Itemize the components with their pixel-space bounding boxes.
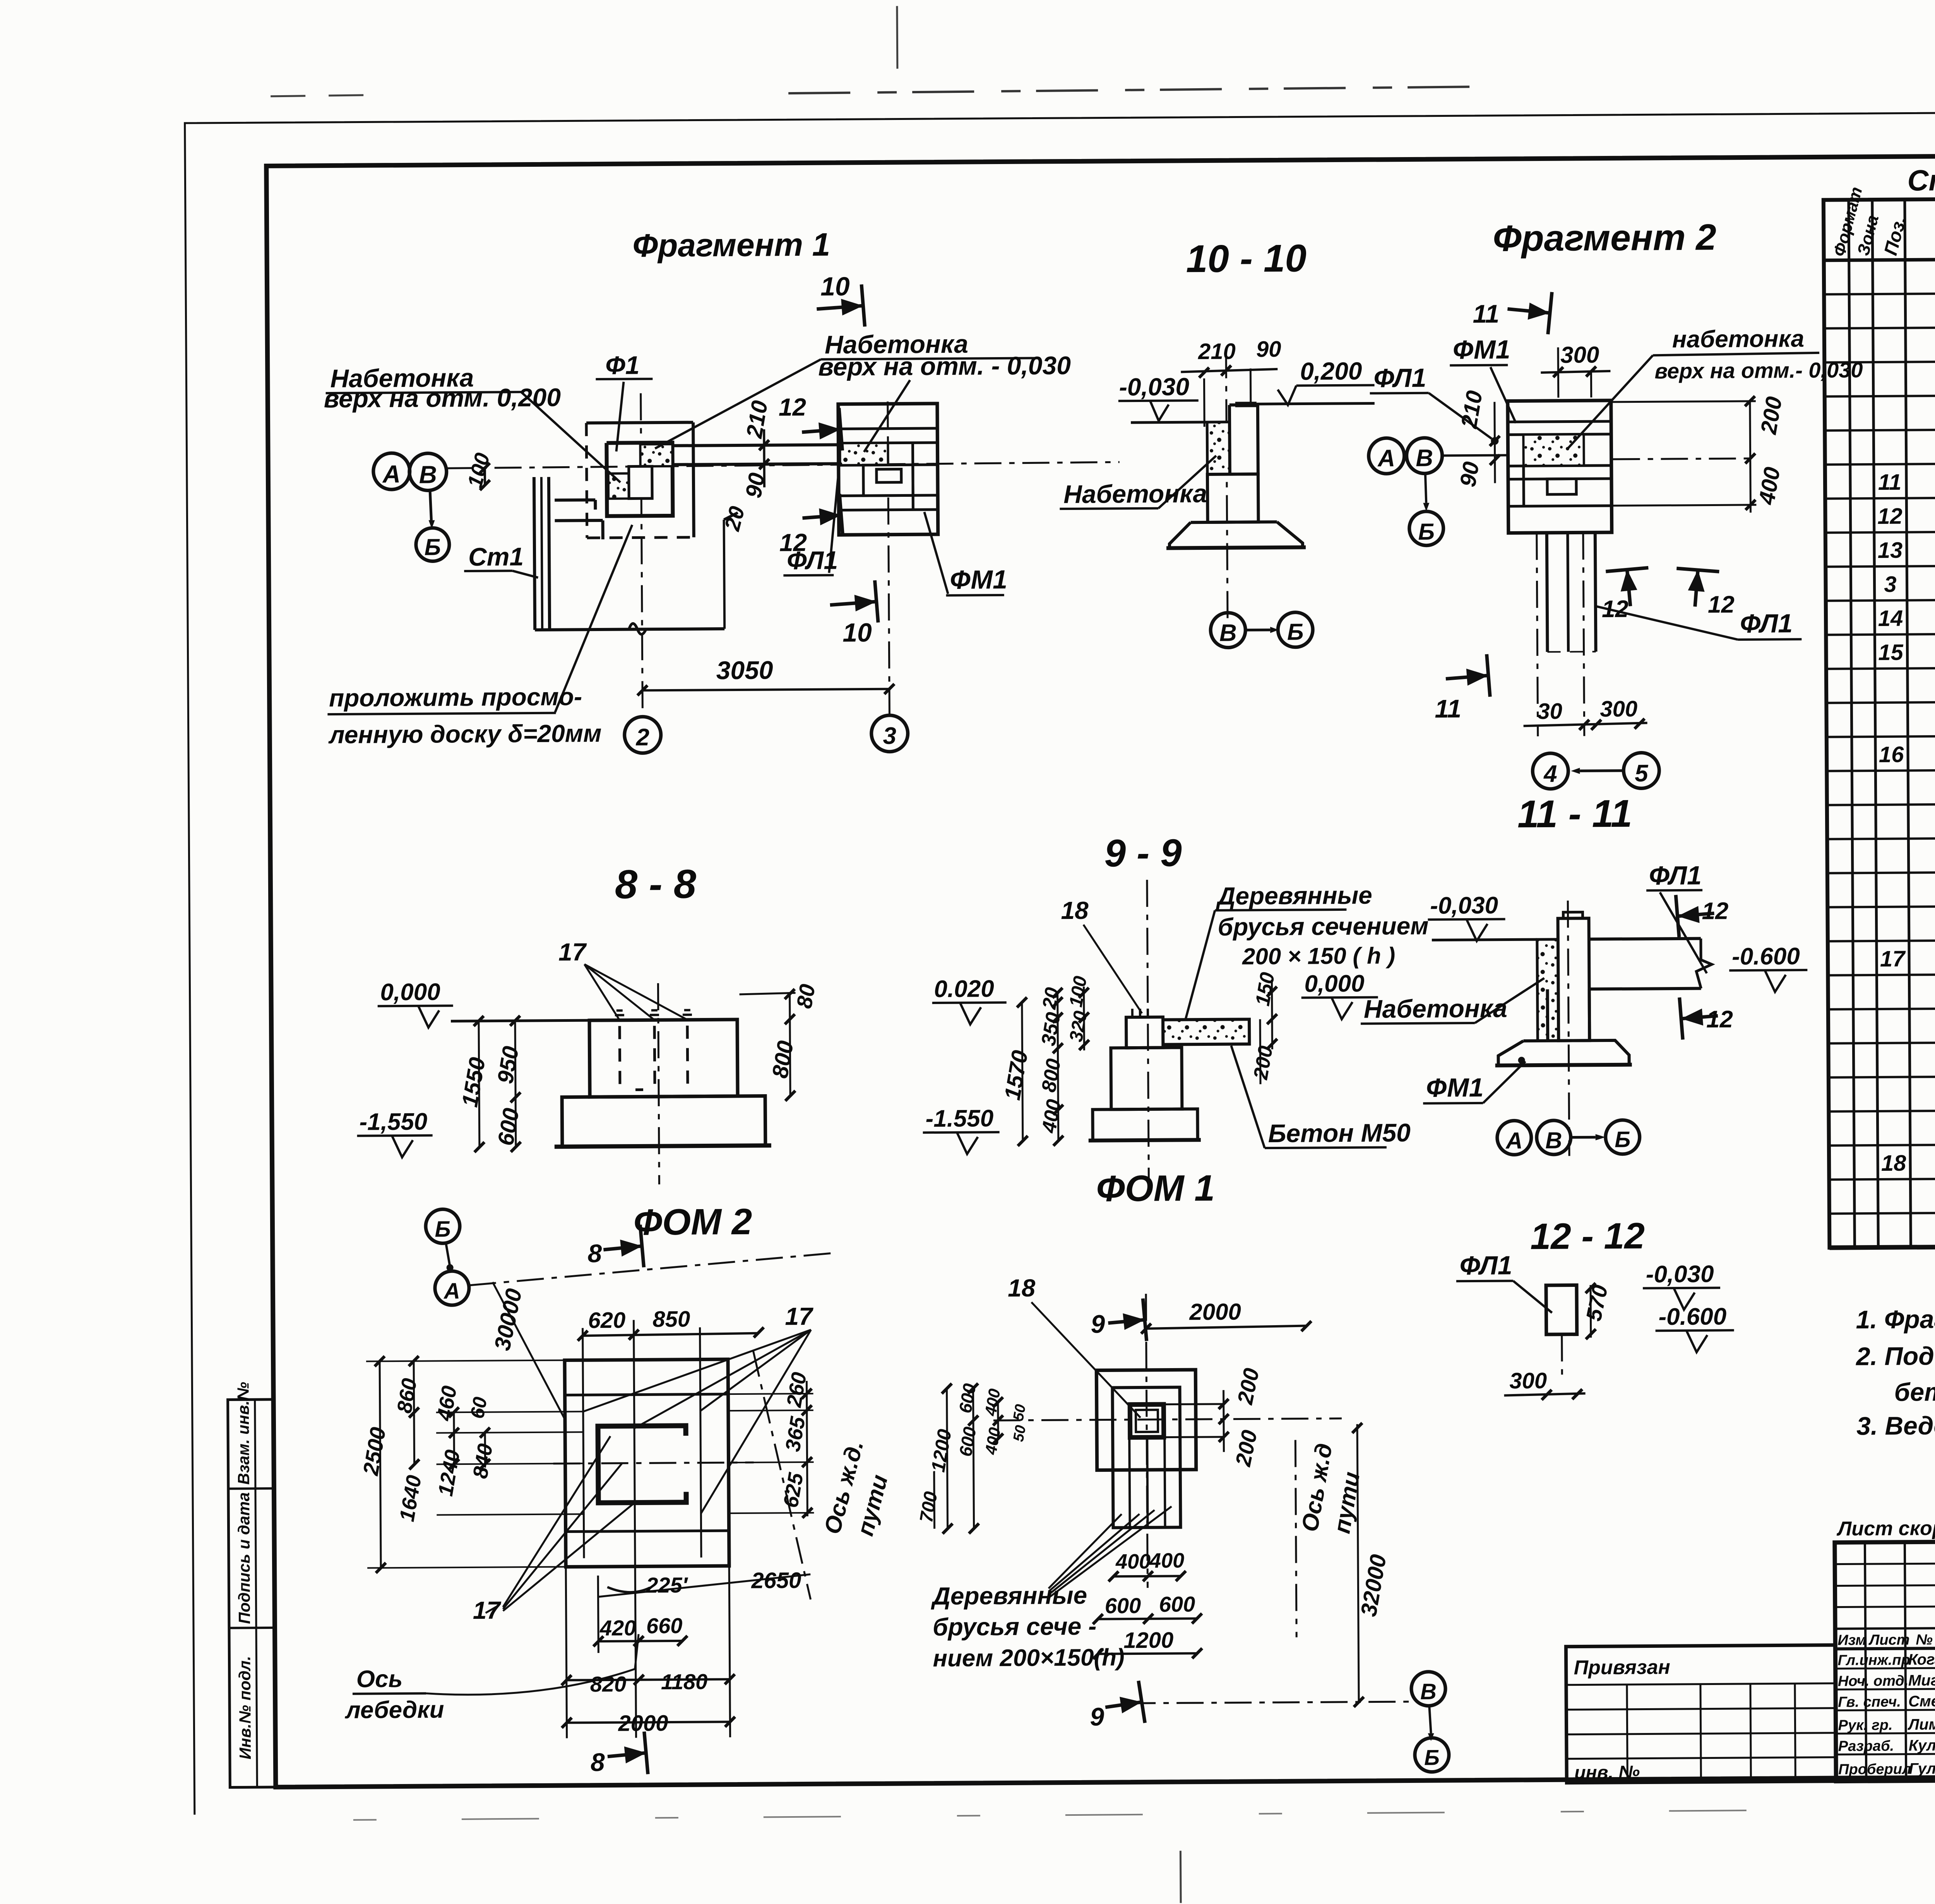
svg-text:100: 100	[463, 450, 495, 490]
svg-text:Набетонка: Набетонка	[1063, 479, 1207, 508]
svg-text:850: 850	[652, 1307, 690, 1332]
plan: Fragment 1	[325, 283, 1121, 755]
svg-text:Лист скорректирован. 10.06.8: Лист скорректирован. 10.06.86	[1836, 1516, 1935, 1540]
svg-text:1550: 1550	[457, 1055, 490, 1109]
svg-text:1240: 1240	[434, 1448, 464, 1498]
svg-text:Б: Б	[1287, 619, 1304, 645]
section 10-10	[1059, 350, 1376, 648]
svg-text:Ноч. отд.: Ноч. отд.	[1838, 1673, 1909, 1690]
svg-text:20: 20	[1038, 986, 1063, 1011]
svg-text:В: В	[419, 460, 437, 488]
svg-text:12: 12	[1702, 898, 1728, 924]
svg-text:ФОМ 2: ФОМ 2	[634, 1201, 752, 1243]
svg-text:10 - 10: 10 - 10	[1186, 236, 1307, 281]
svg-text:950: 950	[493, 1044, 524, 1085]
specification table	[1824, 196, 1935, 1248]
svg-text:17: 17	[558, 938, 587, 966]
svg-text:Лист: Лист	[1868, 1632, 1909, 1649]
svg-text:Б: Б	[1418, 519, 1435, 545]
svg-text:8 - 8: 8 - 8	[615, 862, 697, 907]
svg-text:Ф1: Ф1	[605, 351, 640, 380]
svg-text:17: 17	[1880, 946, 1906, 972]
svg-text:брусья сече -: брусья сече -	[933, 1612, 1097, 1641]
svg-text:200: 200	[1233, 1366, 1264, 1407]
svg-text:Проберил: Проберил	[1838, 1761, 1911, 1778]
svg-text:Б: Б	[424, 534, 441, 560]
svg-text:ФЛ1: ФЛ1	[787, 546, 838, 575]
notes list	[1855, 1301, 1935, 1440]
svg-text:600: 600	[955, 1382, 979, 1415]
svg-text:800: 800	[1038, 1057, 1065, 1094]
svg-text:2500: 2500	[358, 1425, 390, 1477]
svg-text:пути: пути	[1329, 1470, 1365, 1535]
svg-text:ФМ1: ФМ1	[1453, 335, 1510, 364]
svg-text:ленную доску δ=20мм: ленную доску δ=20мм	[328, 719, 602, 749]
svg-text:30000: 30000	[490, 1286, 527, 1353]
svg-text:210: 210	[741, 399, 773, 440]
svg-text:ФЛ1: ФЛ1	[1459, 1251, 1512, 1280]
svg-text:225′: 225′	[646, 1573, 688, 1598]
svg-text:Кулик: Кулик	[1909, 1737, 1935, 1754]
svg-text:400: 400	[1038, 1098, 1065, 1135]
svg-text:инв. №: инв. №	[1574, 1762, 1640, 1783]
svg-text:10: 10	[842, 618, 872, 647]
svg-text:0,200: 0,200	[1300, 357, 1362, 385]
svg-text:32000: 32000	[1356, 1553, 1391, 1618]
svg-text:Деревянные: Деревянные	[1216, 881, 1372, 910]
svg-text:800: 800	[767, 1039, 798, 1080]
svg-text:210: 210	[1198, 339, 1236, 364]
svg-text:2650: 2650	[751, 1568, 801, 1593]
svg-text:Ст1: Ст1	[468, 542, 524, 571]
svg-text:-1.550: -1.550	[925, 1105, 993, 1132]
svg-text:300: 300	[1600, 696, 1637, 722]
svg-text:3. Ведомость расхода стали: 3. Ведомость расхода стали на фундаменты…	[1856, 1408, 1935, 1440]
svg-text:2000: 2000	[1189, 1298, 1241, 1325]
svg-text:нием 200×150(h): нием 200×150(h)	[933, 1644, 1125, 1672]
section 9-9	[921, 878, 1387, 1187]
svg-text:820: 820	[590, 1672, 627, 1697]
svg-text:200: 200	[1231, 1428, 1262, 1469]
svg-text:2. Под всеми фундаментами: 2. Под всеми фундаментами выполнить подг…	[1855, 1338, 1935, 1370]
svg-text:В: В	[1420, 1679, 1437, 1704]
svg-text:150: 150	[1251, 971, 1279, 1008]
svg-text:9: 9	[1090, 1702, 1104, 1731]
svg-text:-1,550: -1,550	[359, 1109, 427, 1136]
svg-text:набетонка: набетонка	[1672, 325, 1804, 353]
svg-text:18: 18	[1881, 1151, 1907, 1176]
svg-text:Привязан: Привязан	[1574, 1656, 1670, 1679]
svg-text:625: 625	[779, 1471, 808, 1509]
svg-text:А: А	[443, 1278, 460, 1304]
svg-text:100: 100	[1065, 975, 1091, 1009]
svg-text:18: 18	[1008, 1274, 1036, 1302]
svg-text:12: 12	[779, 393, 807, 421]
svg-text:90: 90	[1256, 337, 1281, 362]
svg-text:30: 30	[1537, 699, 1562, 724]
svg-text:проложить просмо-: проложить просмо-	[329, 683, 582, 712]
svg-text:1180: 1180	[661, 1669, 708, 1694]
svg-text:620: 620	[588, 1308, 625, 1333]
svg-text:12 - 12: 12 - 12	[1530, 1215, 1645, 1257]
svg-text:В: В	[1545, 1127, 1562, 1153]
svg-text:Бетон М50: Бетон М50	[1268, 1118, 1411, 1148]
svg-text:840: 840	[468, 1442, 497, 1480]
svg-text:50: 50	[1010, 1424, 1029, 1443]
svg-text:верх на отм.- 0,030: верх на отм.- 0,030	[1654, 358, 1863, 383]
svg-text:Деревянные: Деревянные	[930, 1581, 1087, 1610]
svg-text:А: А	[1505, 1127, 1523, 1153]
svg-text:400: 400	[981, 1387, 1003, 1418]
svg-text:В: В	[1219, 620, 1237, 647]
svg-text:Гв. спеч.: Гв. спеч.	[1838, 1694, 1901, 1711]
svg-text:18: 18	[1061, 896, 1089, 924]
svg-text:-0.600: -0.600	[1658, 1303, 1726, 1330]
svg-text:Гл.инж.пр: Гл.инж.пр	[1837, 1652, 1910, 1669]
svg-text:№ докум.: № докум.	[1916, 1631, 1935, 1648]
svg-text:3: 3	[883, 723, 896, 749]
svg-text:13: 13	[1878, 538, 1903, 563]
svg-text:50: 50	[1010, 1403, 1029, 1422]
svg-text:ФМ1: ФМ1	[1426, 1073, 1484, 1103]
svg-text:8: 8	[587, 1239, 602, 1268]
svg-text:0,000: 0,000	[380, 979, 440, 1006]
svg-text:17: 17	[785, 1302, 814, 1330]
svg-text:бетона М50 толщиной 100 мм.: бетона М50 толщиной 100 мм.	[1894, 1375, 1935, 1406]
svg-text:300: 300	[1560, 342, 1599, 368]
creases	[896, 6, 898, 69]
svg-text:0,000: 0,000	[1304, 970, 1365, 997]
svg-text:600: 600	[955, 1425, 980, 1458]
svg-text:17: 17	[473, 1596, 502, 1624]
svg-text:лебедки: лебедки	[344, 1696, 444, 1723]
drawing frame	[266, 152, 1935, 1787]
svg-text:Изм: Изм	[1837, 1632, 1867, 1648]
svg-text:Спецификация фундаментов Ф3: Спецификация фундаментов Ф3 , Ф02 . Ф03	[1907, 161, 1935, 197]
svg-text:ФЛ1: ФЛ1	[1373, 363, 1426, 393]
svg-text:11: 11	[1878, 470, 1902, 495]
svg-text:1200: 1200	[1123, 1628, 1173, 1653]
svg-text:Подпись и дата: Подпись и дата	[235, 1492, 253, 1624]
svg-text:Разраб.: Разраб.	[1838, 1738, 1894, 1755]
svg-text:400: 400	[981, 1426, 1004, 1456]
svg-text:12: 12	[1602, 596, 1628, 623]
svg-text:Ось: Ось	[356, 1666, 403, 1693]
svg-text:300: 300	[1509, 1368, 1547, 1394]
svg-text:А: А	[1377, 445, 1395, 472]
svg-text:3050: 3050	[716, 655, 774, 684]
svg-text:80: 80	[792, 982, 820, 1010]
svg-text:верх на отм. 0,200: верх на отм. 0,200	[324, 383, 561, 413]
svg-text:брусья сечением: брусья сечением	[1218, 912, 1428, 941]
svg-text:2: 2	[635, 724, 649, 751]
svg-text:660: 660	[646, 1613, 683, 1638]
plan FOM2	[350, 1207, 837, 1776]
svg-text:ФОМ 1: ФОМ 1	[1096, 1168, 1215, 1209]
svg-text:9: 9	[1091, 1310, 1105, 1338]
svg-text:11: 11	[1473, 299, 1499, 328]
svg-text:15: 15	[1878, 640, 1904, 665]
svg-text:2000: 2000	[618, 1711, 668, 1736]
svg-text:-0.600: -0.600	[1732, 943, 1800, 970]
svg-text:400: 400	[1149, 1549, 1184, 1572]
svg-text:16: 16	[1879, 742, 1904, 767]
svg-text:12: 12	[1708, 591, 1735, 618]
svg-text:Фрагмент 1: Фрагмент 1	[632, 226, 830, 264]
svg-text:12: 12	[1877, 504, 1902, 529]
svg-text:12: 12	[1706, 1006, 1733, 1033]
svg-text:Гулак: Гулак	[1909, 1760, 1935, 1777]
svg-text:-0,030: -0,030	[1119, 373, 1189, 401]
svg-text:460: 460	[432, 1384, 461, 1423]
svg-text:Лимонов: Лимонов	[1907, 1716, 1935, 1733]
svg-text:верх на отм. - 0,030: верх на отм. - 0,030	[818, 351, 1071, 381]
svg-text:400: 400	[1115, 1550, 1151, 1574]
svg-text:1. Фрагменты 1 и 2 замарк: 1. Фрагменты 1 и 2 замаркированы на лист…	[1856, 1301, 1935, 1334]
svg-text:11 - 11: 11 - 11	[1517, 792, 1632, 836]
svg-text:9 - 9: 9 - 9	[1104, 831, 1182, 875]
svg-text:8: 8	[591, 1748, 605, 1776]
svg-text:11: 11	[1435, 694, 1461, 723]
svg-text:420: 420	[599, 1616, 636, 1641]
section 12-12	[1456, 1280, 1735, 1400]
svg-text:Смехов: Смехов	[1908, 1693, 1935, 1710]
plan FOM1	[933, 1292, 1449, 1775]
section 8-8	[356, 963, 796, 1186]
stray top dashes	[271, 95, 386, 96]
svg-text:-0,030: -0,030	[1430, 892, 1498, 919]
svg-text:200: 200	[1756, 395, 1787, 436]
svg-text:320: 320	[1066, 1009, 1091, 1044]
svg-text:Рук. гр.: Рук. гр.	[1838, 1717, 1892, 1734]
svg-text:Взам. инв.№: Взам. инв.№	[234, 1382, 253, 1485]
svg-text:ФЛ1: ФЛ1	[1740, 609, 1793, 638]
title block	[1565, 1538, 1935, 1783]
svg-text:90: 90	[741, 471, 770, 500]
svg-text:-0,030: -0,030	[1646, 1261, 1714, 1288]
section 11-11	[1360, 890, 1808, 1157]
svg-text:1570: 1570	[1000, 1049, 1033, 1102]
svg-text:0.020: 0.020	[934, 975, 994, 1002]
svg-text:Б: Б	[1424, 1745, 1440, 1770]
svg-text:350: 350	[1037, 1011, 1065, 1047]
svg-text:В: В	[1416, 445, 1433, 472]
svg-text:Мигаль: Мигаль	[1908, 1672, 1935, 1689]
svg-text:210: 210	[1456, 389, 1488, 430]
svg-text:365: 365	[781, 1415, 810, 1453]
svg-text:200: 200	[1249, 1044, 1277, 1081]
svg-text:4: 4	[1543, 761, 1557, 787]
svg-text:Б: Б	[435, 1216, 450, 1242]
svg-text:14: 14	[1878, 606, 1903, 631]
svg-text:700: 700	[916, 1490, 942, 1524]
svg-text:ФМ1: ФМ1	[950, 565, 1007, 595]
svg-text:60: 60	[466, 1395, 491, 1420]
svg-text:ФЛ1: ФЛ1	[1649, 861, 1702, 891]
svg-text:3: 3	[1884, 572, 1897, 597]
svg-text:Когаловский: Когаловский	[1908, 1651, 1935, 1668]
svg-text:1200: 1200	[927, 1428, 956, 1474]
svg-text:90: 90	[1455, 460, 1484, 489]
svg-text:Б: Б	[1615, 1127, 1630, 1152]
svg-text:600: 600	[1105, 1593, 1141, 1618]
svg-text:400: 400	[1754, 465, 1785, 506]
svg-text:200 × 150 ( h ): 200 × 150 ( h )	[1242, 943, 1396, 969]
svg-text:600: 600	[1159, 1592, 1195, 1617]
svg-text:А: А	[382, 460, 401, 488]
svg-text:10: 10	[820, 272, 850, 301]
svg-text:5: 5	[1635, 760, 1649, 787]
svg-text:Инв.№ подл.: Инв.№ подл.	[235, 1656, 254, 1760]
svg-text:Фрагмент 2: Фрагмент 2	[1493, 217, 1716, 259]
svg-text:570: 570	[1581, 1283, 1613, 1323]
plan: Fragment 2	[1368, 291, 1822, 790]
svg-text:Набетонка: Набетонка	[1364, 994, 1507, 1023]
svg-text:1640: 1640	[395, 1473, 426, 1523]
